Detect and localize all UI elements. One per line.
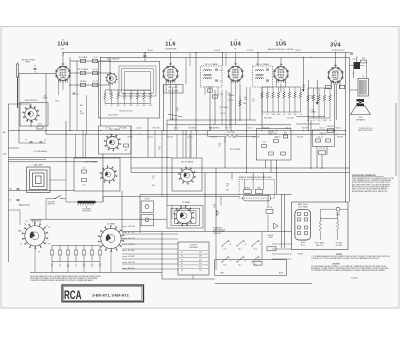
svg-text:C27 .05: C27 .05 bbox=[173, 128, 178, 130]
svg-text:C16: C16 bbox=[220, 70, 223, 72]
svg-text:LINE PLUG FOR: LINE PLUG FOR bbox=[213, 229, 226, 231]
svg-text:C15: C15 bbox=[83, 167, 86, 169]
svg-text:24V: 24V bbox=[199, 256, 202, 258]
svg-text:.05: .05 bbox=[158, 149, 160, 151]
wires into terminal board bbox=[244, 179, 246, 189]
svg-text:1U4: 1U4 bbox=[230, 41, 242, 47]
svg-text:.1: .1 bbox=[104, 105, 105, 107]
resistor R1 bbox=[80, 59, 86, 62]
svg-text:R24 1M: R24 1M bbox=[335, 128, 341, 130]
wire vert x311 bbox=[310, 120, 312, 168]
wire V1 cluster drops bbox=[76, 95, 78, 130]
svg-text:R7: R7 bbox=[80, 111, 82, 113]
wire V4 top bbox=[262, 86, 301, 88]
1st IF transformer dashed box bbox=[201, 66, 223, 87]
terminal board small box red bbox=[255, 190, 263, 194]
capacitor C23 left bbox=[17, 199, 20, 201]
svg-text:C20 .05: C20 .05 bbox=[220, 113, 225, 115]
wire vert x258 bbox=[257, 53, 259, 67]
1st IF lower box bbox=[74, 158, 120, 191]
svg-text:C30 .05: C30 .05 bbox=[319, 148, 325, 150]
svg-text:4.7: 4.7 bbox=[75, 266, 77, 268]
padder chain resistors bbox=[104, 93, 106, 100]
wire V4 pin drops bbox=[284, 81, 286, 87]
svg-text:C22: C22 bbox=[9, 189, 12, 191]
svg-text:BC: BC bbox=[26, 221, 28, 223]
svg-text:P6: P6 bbox=[48, 227, 50, 229]
svg-text:200: 200 bbox=[302, 87, 305, 89]
svg-text:.02: .02 bbox=[329, 120, 331, 122]
capacitor C4 bbox=[92, 71, 98, 74]
svg-text:360: 360 bbox=[143, 105, 146, 107]
svg-text:C28 .05: C28 .05 bbox=[275, 137, 280, 139]
wire mid verticals x155 x191 bbox=[154, 130, 156, 157]
svg-text:P4: P4 bbox=[181, 263, 183, 265]
svg-text:.05: .05 bbox=[252, 101, 254, 103]
wire bus y125 segment bbox=[167, 124, 291, 126]
svg-text:C6 47: C6 47 bbox=[38, 124, 43, 126]
svg-text:GRID CIRCUIT: GRID CIRCUIT bbox=[25, 100, 39, 102]
svg-text:C16: C16 bbox=[83, 185, 86, 187]
wire V1 pin drops bbox=[58, 80, 60, 95]
loop coupling capacitors bbox=[30, 141, 33, 143]
battery terminal wires bbox=[272, 243, 292, 245]
svg-text:.01: .01 bbox=[226, 186, 228, 188]
wire V5 rows bbox=[308, 87, 330, 89]
wire vert x222 bbox=[222, 53, 224, 67]
wire x232 vertical bbox=[231, 173, 233, 180]
svg-text:R11 680: R11 680 bbox=[167, 137, 173, 139]
svg-text:1 MEG: 1 MEG bbox=[42, 98, 48, 100]
wire x50 loop lead bbox=[50, 179, 66, 181]
wire vert x100 bbox=[100, 57, 102, 126]
svg-text:T2: T2 bbox=[353, 73, 355, 75]
speaker cone bbox=[351, 106, 371, 115]
oscillator winding loops bbox=[119, 66, 156, 96]
svg-text:3: 3 bbox=[278, 74, 279, 76]
svg-text:R16 2.2M: R16 2.2M bbox=[253, 137, 260, 139]
wire x246 upper bbox=[245, 87, 247, 125]
svg-text:C41: C41 bbox=[91, 264, 94, 266]
wire left bus vertical bbox=[8, 104, 10, 262]
resistor R2 bbox=[80, 71, 86, 74]
svg-text:1U4: 1U4 bbox=[57, 42, 69, 48]
svg-text:RCA: RCA bbox=[64, 288, 82, 302]
wire bus y196 bbox=[103, 196, 239, 198]
junction dots V1 bbox=[69, 72, 70, 73]
wire vert x281 V4 lead bbox=[280, 84, 282, 92]
wire top B-plus rail bbox=[63, 52, 350, 54]
wire x221 lower bbox=[220, 197, 222, 206]
oscillator transformer box bbox=[99, 126, 131, 154]
wire bottom rail right bbox=[215, 283, 312, 285]
svg-text:C5 47: C5 47 bbox=[55, 101, 60, 103]
wire vert x70 from V1 bbox=[69, 84, 71, 130]
svg-text:SPEAKER: SPEAKER bbox=[356, 118, 365, 121]
wire RF coil leads bbox=[30, 120, 32, 127]
wire 3rd IF feeders bbox=[176, 134, 178, 158]
svg-text:1.5: 1.5 bbox=[44, 140, 46, 142]
wire bus y162 bbox=[9, 161, 99, 163]
wire V5 pin drops bbox=[330, 82, 332, 88]
svg-text:470: 470 bbox=[318, 120, 321, 122]
terminal board small box black bbox=[244, 190, 252, 194]
switch S2 rear view bbox=[176, 208, 192, 224]
svg-text:.05: .05 bbox=[283, 114, 285, 116]
capacitor C30 mid bbox=[319, 151, 326, 154]
svg-text:.05: .05 bbox=[123, 105, 125, 107]
trimmers C20 C21 bbox=[266, 68, 269, 70]
wire vert x308 bbox=[307, 80, 309, 130]
svg-text:P3: P3 bbox=[181, 259, 183, 261]
svg-text:220: 220 bbox=[91, 266, 94, 268]
svg-text:R19 220K: R19 220K bbox=[263, 128, 270, 130]
svg-text:C5 .05: C5 .05 bbox=[92, 81, 98, 83]
wire switch leads bbox=[46, 198, 55, 200]
wire vert x207 bbox=[207, 130, 209, 136]
wire left stub bbox=[20, 204, 30, 206]
svg-text:R13 15K: R13 15K bbox=[211, 137, 217, 139]
wire loop feeder drops bbox=[75, 134, 77, 158]
svg-text:.01: .01 bbox=[218, 146, 220, 148]
svg-text:3: 3 bbox=[233, 74, 234, 76]
svg-text:FOR BATTERY OPERATION: FOR BATTERY OPERATION bbox=[352, 174, 376, 177]
wire vert x271 bbox=[270, 160, 272, 173]
wire vert x163 V2 lead bbox=[163, 85, 165, 130]
svg-text:OSC 1L6 SOC: OSC 1L6 SOC bbox=[168, 87, 179, 89]
V4 resistor chain bbox=[261, 92, 263, 98]
svg-text:P2: P2 bbox=[181, 256, 183, 258]
svg-text:C32 .02: C32 .02 bbox=[317, 137, 322, 139]
wire vert x317 bbox=[316, 80, 318, 104]
wire vert x186 bbox=[185, 130, 187, 158]
svg-text:GRN: GRN bbox=[220, 273, 223, 275]
wire AVC bus y130 bbox=[9, 129, 346, 131]
svg-text:6: 6 bbox=[65, 71, 66, 73]
svg-text:R13 470K: R13 470K bbox=[264, 118, 272, 120]
speaker magnet bbox=[357, 99, 365, 106]
wire tap row bottom bbox=[52, 261, 100, 263]
svg-text:R19 2.2 MEG: R19 2.2 MEG bbox=[230, 149, 241, 151]
svg-text:L5: L5 bbox=[59, 264, 61, 266]
svg-text:4: 4 bbox=[170, 76, 171, 78]
svg-text:R10 3.3M: R10 3.3M bbox=[153, 128, 160, 130]
wire vert x172 V2 lead bbox=[172, 88, 174, 120]
svg-text:36V: 36V bbox=[199, 259, 202, 261]
wire y159 segment bbox=[9, 158, 47, 160]
wire vert x225b bbox=[224, 136, 226, 143]
svg-text:220: 220 bbox=[130, 105, 133, 107]
telescoping antenna bbox=[17, 64, 19, 77]
arrow electrode 1 bbox=[302, 89, 304, 91]
svg-text:.01: .01 bbox=[312, 120, 314, 122]
wire V2 pin drop bbox=[170, 81, 172, 120]
wire vert x103 bbox=[102, 154, 104, 202]
svg-text:C21: C21 bbox=[158, 147, 161, 149]
wire antenna lead vertical bbox=[18, 74, 20, 144]
svg-text:C1: C1 bbox=[34, 65, 36, 67]
svg-text:S-74556: S-74556 bbox=[351, 278, 357, 280]
svg-text:C12: C12 bbox=[149, 105, 152, 107]
switch contact diagrams bbox=[222, 240, 229, 246]
svg-text:C35 .05: C35 .05 bbox=[267, 207, 273, 209]
wire bus y134 bbox=[46, 133, 346, 135]
svg-text:B+ 67.5V: B+ 67.5V bbox=[214, 50, 220, 52]
svg-text:GND LUG: GND LUG bbox=[128, 262, 136, 264]
wire vert x230 bbox=[229, 94, 231, 125]
svg-text:CONVERTER: CONVERTER bbox=[165, 49, 177, 51]
wire x66 to volume bbox=[65, 162, 67, 202]
svg-text:R25 390: R25 390 bbox=[337, 137, 343, 139]
wire bus y190 bbox=[9, 190, 75, 192]
svg-text:C14 .05: C14 .05 bbox=[109, 137, 114, 139]
svg-text:R3 680: R3 680 bbox=[80, 81, 86, 83]
svg-text:T2: T2 bbox=[362, 76, 364, 78]
svg-text:47: 47 bbox=[267, 114, 269, 116]
RCA logo box bbox=[62, 285, 144, 302]
wire vert x210 bbox=[209, 87, 211, 130]
svg-text:C22 100: C22 100 bbox=[232, 137, 238, 139]
component box above loop bbox=[37, 126, 43, 129]
wire V4 bottom bbox=[262, 111, 301, 113]
resistor R11 box bbox=[208, 89, 213, 92]
pilot lamp circle bbox=[336, 207, 340, 211]
wire x216 vertical bbox=[215, 168, 217, 234]
svg-text:1.5: 1.5 bbox=[34, 72, 37, 74]
svg-text:6: 6 bbox=[338, 73, 339, 75]
capacitor C5 bbox=[92, 83, 98, 86]
svg-text:L7: L7 bbox=[75, 264, 77, 266]
svg-text:C26 .02: C26 .02 bbox=[136, 128, 141, 130]
wire x253 vertical bbox=[252, 173, 254, 180]
wire trimmer lead bbox=[144, 53, 146, 62]
wire vert x246 bbox=[245, 125, 247, 173]
svg-text:R8 22K: R8 22K bbox=[127, 137, 132, 139]
capacitor C29 box bbox=[326, 85, 332, 88]
svg-text:.02: .02 bbox=[152, 178, 154, 180]
capacitor C3 bbox=[92, 59, 98, 62]
oscillator coil L3 bbox=[107, 74, 117, 84]
wire far right x396 bbox=[395, 103, 397, 176]
wire V3 pin drops bbox=[230, 81, 232, 130]
wire y136 segment bbox=[208, 135, 225, 137]
wire bus y194 bbox=[140, 193, 292, 195]
svg-text:C37: C37 bbox=[353, 59, 356, 61]
capacitor C2 bypass bbox=[73, 92, 76, 94]
svg-text:C25 .05: C25 .05 bbox=[285, 128, 290, 130]
svg-text:3-BX-671, 3-BX-672: 3-BX-671, 3-BX-672 bbox=[92, 292, 129, 297]
wire bus y168 bbox=[131, 167, 350, 169]
wire vert x317 lower bbox=[316, 146, 318, 168]
wire vert x205 bbox=[204, 173, 206, 232]
svg-text:C36: C36 bbox=[213, 205, 216, 207]
svg-text:R17 470K: R17 470K bbox=[227, 132, 235, 134]
wire vert x167 bbox=[166, 120, 168, 206]
svg-text:22: 22 bbox=[59, 266, 61, 268]
wire IF secondary drops bbox=[204, 87, 206, 95]
wire V2 plate lead bbox=[185, 57, 187, 84]
jack arrow bbox=[274, 223, 279, 229]
wire vert x262 bbox=[261, 87, 263, 129]
wire tap row top bbox=[52, 245, 100, 247]
wire vert x196 bbox=[195, 53, 197, 131]
junction dots buses bbox=[246, 172, 247, 173]
socket box under V2 bbox=[164, 85, 184, 94]
svg-text:C7: C7 bbox=[25, 140, 27, 142]
svg-text:1ST I-F TRANS: 1ST I-F TRANS bbox=[205, 63, 219, 66]
svg-text:48V: 48V bbox=[199, 263, 202, 265]
wire chain bottom bbox=[105, 103, 151, 105]
battery plug connector bbox=[295, 210, 311, 240]
wire antenna to V1 grid bbox=[19, 73, 56, 75]
svg-text:2ND I-F TRANS: 2ND I-F TRANS bbox=[256, 63, 270, 66]
speaker terminal dashed box bbox=[239, 179, 275, 198]
svg-text:R20 68K: R20 68K bbox=[302, 128, 308, 130]
svg-text:P9: P9 bbox=[38, 251, 40, 253]
svg-text:BLUE: BLUE bbox=[279, 273, 283, 275]
svg-text:C19 .05: C19 .05 bbox=[228, 100, 234, 102]
3rd IF lower box bbox=[172, 158, 202, 191]
svg-text:4: 4 bbox=[281, 76, 282, 78]
svg-text:S2 REAR: S2 REAR bbox=[182, 201, 190, 204]
svg-text:R22: R22 bbox=[284, 132, 287, 134]
capacitor C18 box bbox=[213, 95, 218, 98]
capacitor box right bbox=[361, 60, 367, 63]
arrow right of loops bbox=[217, 210, 219, 216]
wire vert x148 bbox=[147, 118, 149, 157]
transformer extra hatch bbox=[360, 80, 362, 95]
svg-text:6: 6 bbox=[173, 71, 174, 73]
volume control R15 bbox=[78, 201, 96, 204]
wire S1 front connections bbox=[19, 210, 21, 225]
svg-text:B.C. OSC: B.C. OSC bbox=[128, 232, 136, 234]
wire bottom center verticals bbox=[215, 234, 217, 270]
wire vert x176 V2 lead bbox=[175, 84, 177, 130]
svg-text:60V: 60V bbox=[199, 267, 202, 269]
components left of battery box bbox=[266, 209, 273, 213]
output transformer T4 bbox=[358, 79, 369, 97]
wire bus y172 bbox=[131, 172, 350, 174]
svg-text:S1-2: S1-2 bbox=[238, 248, 241, 250]
wire bottom rail left bbox=[30, 272, 162, 274]
socket voltage chart bbox=[178, 242, 209, 275]
wire vert x225 bbox=[224, 137, 226, 168]
wire bus y120 segment bbox=[167, 119, 256, 121]
wire vert x122 bbox=[121, 191, 123, 232]
svg-text:3V4: 3V4 bbox=[330, 43, 341, 49]
arrow C14 bbox=[168, 114, 183, 117]
svg-text:C22: C22 bbox=[152, 176, 155, 178]
junction left bbox=[19, 204, 20, 205]
svg-text:3: 3 bbox=[168, 74, 169, 76]
2nd IF transformer dashed box bbox=[253, 66, 273, 87]
svg-text:.05: .05 bbox=[213, 207, 215, 209]
junction dots V3 bbox=[209, 130, 210, 131]
svg-text:S1 REAR: S1 REAR bbox=[107, 223, 115, 226]
oscillator transformer socket view bbox=[106, 136, 118, 148]
RF coil L2 socket view bbox=[25, 108, 37, 120]
svg-text:3: 3 bbox=[60, 74, 61, 76]
svg-text:B+ B-: B+ B- bbox=[301, 245, 305, 247]
svg-text:R21 47K: R21 47K bbox=[297, 137, 303, 139]
svg-text:C14 .05: C14 .05 bbox=[171, 119, 177, 121]
svg-text:P6: P6 bbox=[181, 270, 183, 272]
svg-text:P1: P1 bbox=[181, 252, 183, 254]
svg-text:C38: C38 bbox=[257, 259, 260, 261]
wire left stub y115 bbox=[9, 147, 20, 149]
terminal strip oblong bbox=[243, 195, 271, 201]
battery box bbox=[292, 202, 349, 250]
band switch S1 front view bbox=[25, 226, 45, 246]
svg-text:1L6: 1L6 bbox=[165, 41, 176, 47]
loop antenna L1 bbox=[27, 167, 51, 193]
2nd AF amplifier box bbox=[256, 129, 291, 160]
wire y124 segment bbox=[296, 123, 320, 125]
IF coil socket view B bbox=[102, 168, 115, 181]
filament wiring fan bbox=[122, 233, 178, 235]
svg-text:P1: P1 bbox=[20, 244, 22, 246]
svg-text:72V: 72V bbox=[199, 270, 202, 272]
capacitor at top right bbox=[350, 52, 353, 54]
wire x263 vertical bbox=[262, 173, 264, 180]
svg-text:S1-5: S1-5 bbox=[238, 264, 241, 266]
arrow electrode 2 bbox=[316, 102, 318, 104]
svg-text:AM DET-FOA. A.V.C.-1ST A.F.: AM DET-FOA. A.V.C.-1ST A.F. bbox=[268, 48, 294, 51]
svg-text:C31 .01: C31 .01 bbox=[319, 128, 324, 130]
wire vert x284 bbox=[284, 194, 286, 231]
trimmer capacitor C9 bbox=[143, 55, 146, 57]
svg-text:R25: R25 bbox=[226, 190, 229, 192]
capacitor C160 box bbox=[327, 129, 334, 132]
wire transformer leads bbox=[350, 89, 359, 91]
svg-text:3: 3 bbox=[333, 75, 334, 77]
grid circuit box bbox=[20, 103, 48, 127]
IF coil socket view C bbox=[181, 169, 194, 182]
svg-text:RES. 270: RES. 270 bbox=[316, 245, 323, 247]
svg-text:R11 47K: R11 47K bbox=[207, 86, 214, 88]
svg-text:2ND IF TRANS: 2ND IF TRANS bbox=[85, 160, 99, 163]
svg-text:R9 1 MEG: R9 1 MEG bbox=[119, 128, 127, 130]
svg-text:TO PWR. SW. S2-1: TO PWR. SW. S2-1 bbox=[359, 128, 373, 130]
wire right bus 2 bbox=[349, 57, 351, 202]
svg-text:NOTES: NOTES bbox=[336, 254, 343, 256]
wire vert x276 long bbox=[276, 160, 278, 194]
wire bus y157 bbox=[9, 156, 173, 158]
svg-text:TION ONLY: TION ONLY bbox=[213, 233, 221, 235]
svg-text:SWITCH: SWITCH bbox=[47, 204, 55, 206]
svg-text:P5: P5 bbox=[181, 267, 183, 269]
wire top rail 2 bbox=[101, 56, 350, 58]
wire jack area vertical bbox=[267, 194, 269, 207]
wire vert x46 bbox=[45, 74, 47, 135]
wire bus y219 bbox=[30, 218, 167, 220]
wire right bus 1 bbox=[345, 53, 347, 203]
svg-text:C33: C33 bbox=[362, 58, 365, 60]
svg-text:S1-4: S1-4 bbox=[223, 264, 226, 266]
svg-text:C19: C19 bbox=[252, 99, 255, 101]
svg-text:R8 15K C14 .004: R8 15K C14 .004 bbox=[120, 111, 133, 113]
coil tap elements row bbox=[51, 246, 53, 251]
svg-text:C15 220: C15 220 bbox=[147, 137, 153, 139]
wire chart to rail bbox=[192, 275, 194, 279]
wire vert x162 bbox=[161, 232, 163, 280]
svg-text:P8: P8 bbox=[48, 244, 50, 246]
svg-text:CAPAC.: CAPAC. bbox=[311, 111, 318, 114]
IF trimmers B bbox=[82, 170, 87, 173]
svg-text:PHONO: PHONO bbox=[298, 254, 304, 256]
V5 grid components bbox=[307, 95, 309, 101]
wire loop top bbox=[19, 142, 46, 144]
